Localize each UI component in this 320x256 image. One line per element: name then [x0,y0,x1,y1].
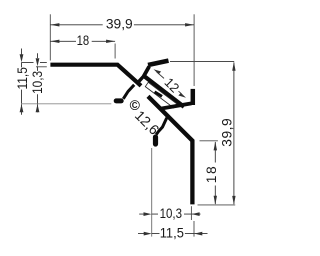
dimension 39,9 right [232,62,235,205]
profile piece B: vertical bar, 45deg diagonal and tongue [148,96,192,204]
profile piece A: inner hook foot [116,98,121,103]
svg-text:11,5: 11,5 [15,67,30,90]
dimension 10,3 bottom [139,212,200,216]
extension line A left (top of bar) [22,62,47,64]
profile piece B: receiver stub [191,89,196,105]
extension line C left (inner corner, long gray) [22,103,112,105]
svg-text:18: 18 [204,165,219,184]
extension tick right of 10,3 bottom [190,206,192,220]
extension line bottom of 39,9 right [198,204,236,206]
dimension 11,5 bottom [138,232,208,236]
serration strip outline [145,82,176,108]
profile piece A: lip bar [148,61,169,65]
svg-text:39,9: 39,9 [220,118,235,147]
profile piece B: inner hook neck [156,118,167,135]
svg-text:18: 18 [77,33,90,48]
dimension 12 channel [154,69,187,98]
svg-text:10,3: 10,3 [160,206,183,221]
extension line right of 39,9 top [193,14,195,86]
profile piece A: top flange bar and 45deg diagonal [50,65,141,86]
svg-text:11,5: 11,5 [160,226,184,241]
extension line left of 39,9 top [49,14,51,60]
profile piece B: inner hook foot [153,137,158,144]
svg-text:10,3: 10,3 [30,71,45,94]
extension line below 18 top right end [114,44,116,59]
dimension 18 right [214,141,217,204]
dimension 10,3 left [36,53,40,112]
profile piece A: channel wall W1 [144,66,150,76]
extension line left of bottom dims (long) [151,148,153,237]
dimension 39,9 top [50,23,194,26]
profile piece A: tongue [144,76,184,107]
extension tick right of 11,5 bottom [193,221,195,237]
dimension 18 top [50,40,115,43]
profile piece B: receiver wall W2 [160,103,192,108]
extension line B left (bottom of bar) [36,66,47,68]
profile piece A: apex-to-diagonal branch [137,76,144,83]
extension line top of 39,9 right [170,61,234,63]
profile piece A: inner hook neck [123,85,134,99]
dimension 11,5 left [20,49,24,115]
svg-text:39,9: 39,9 [106,17,133,32]
serration dash [155,92,162,97]
extension line top of 18 right [200,140,218,142]
